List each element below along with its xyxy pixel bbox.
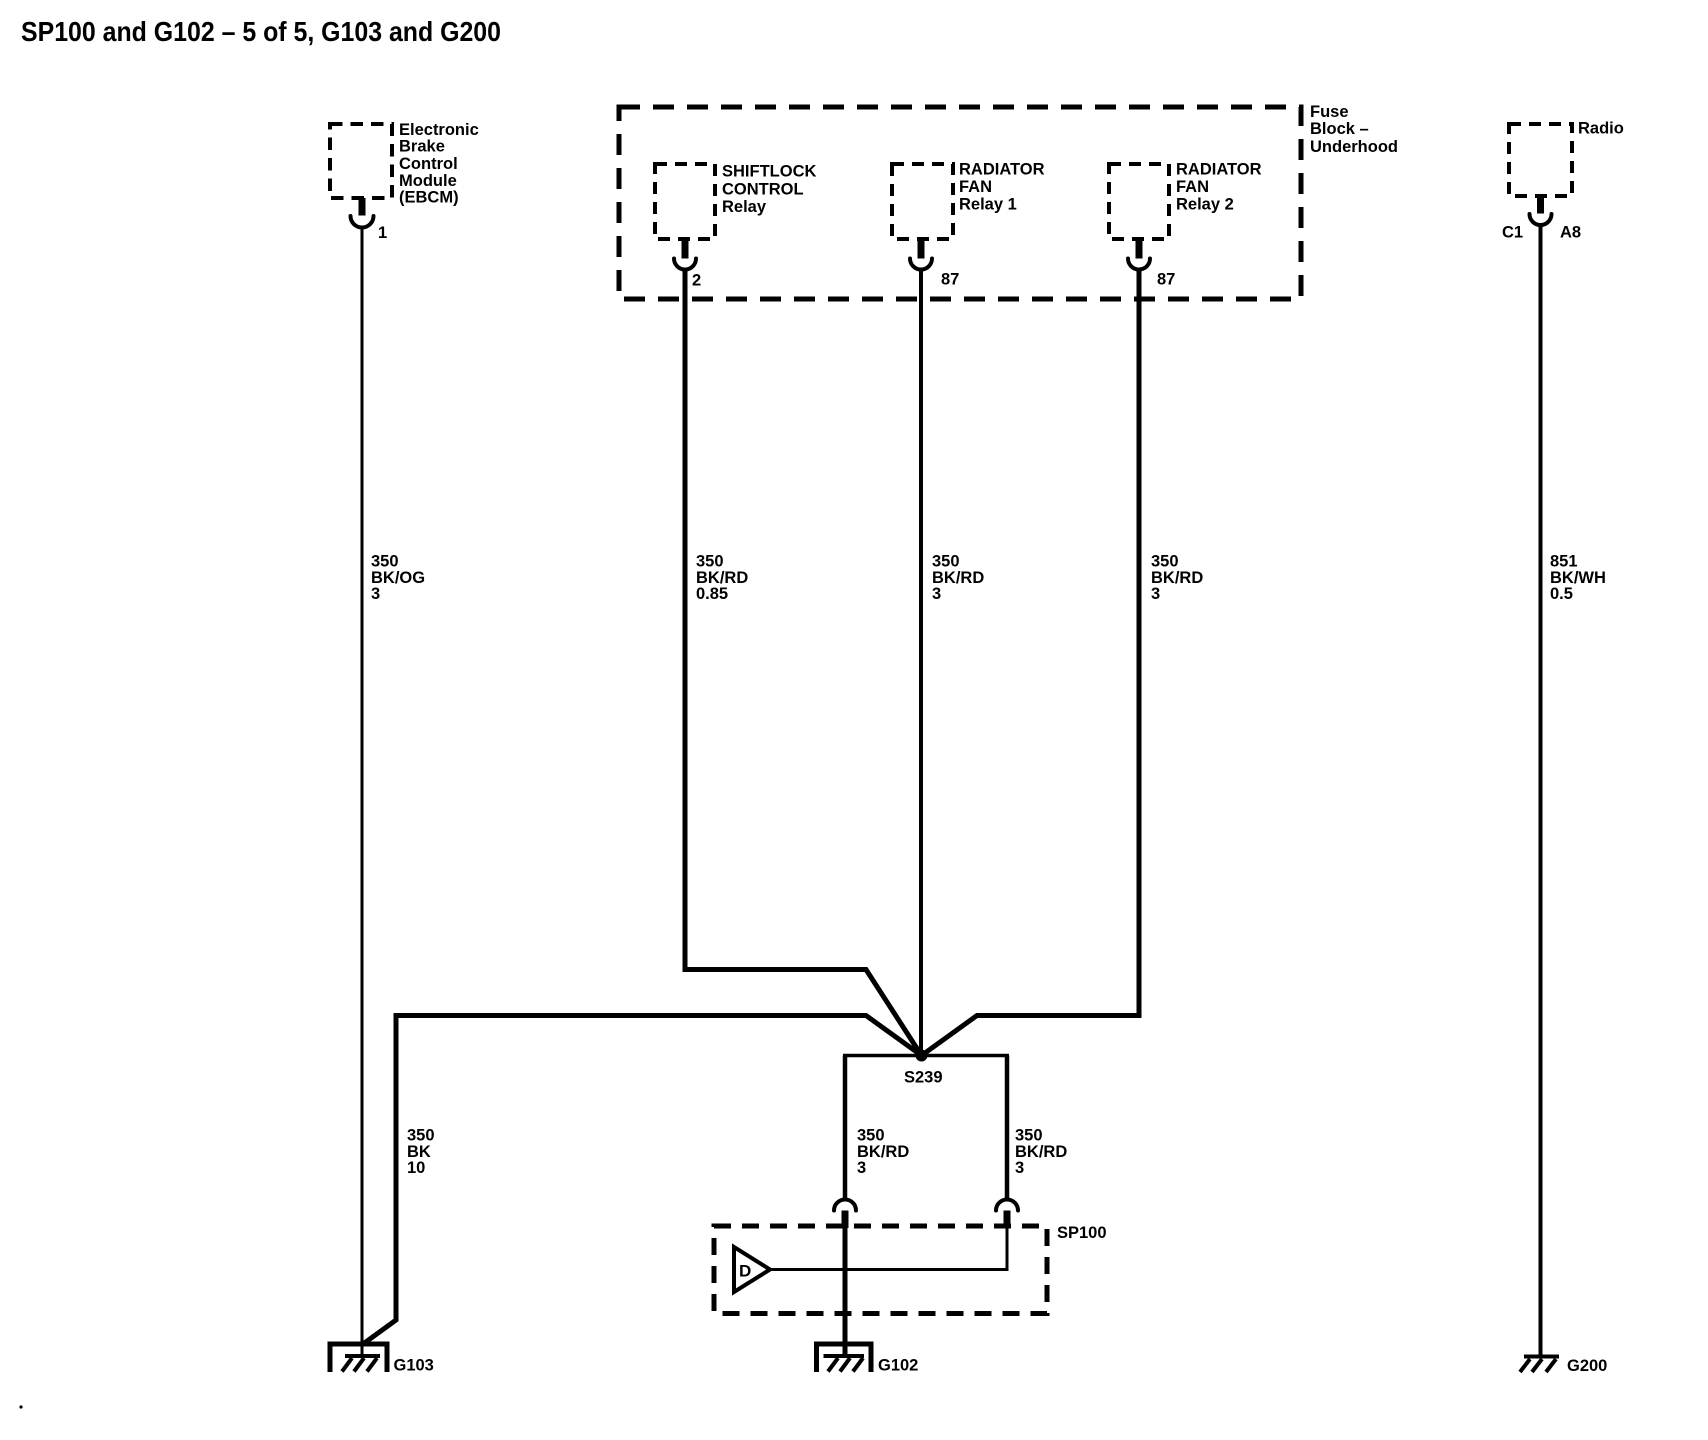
svg-text:G102: G102 [878,1357,918,1375]
svg-text:Underhood: Underhood [1310,138,1398,156]
svg-text:350: 350 [932,552,960,570]
svg-text:87: 87 [1157,270,1175,288]
svg-text:350: 350 [696,552,724,570]
svg-text:10: 10 [407,1159,425,1177]
svg-text:BK/RD: BK/RD [1015,1143,1067,1161]
svg-text:Electronic: Electronic [399,121,479,139]
svg-text:0.5: 0.5 [1550,585,1573,603]
svg-text:Block –: Block – [1310,120,1369,138]
svg-text:Brake: Brake [399,138,445,156]
svg-text:Relay: Relay [722,198,767,216]
svg-text:BK/RD: BK/RD [932,569,984,587]
svg-text:1: 1 [378,224,387,242]
svg-text:FAN: FAN [959,178,992,196]
svg-text:350: 350 [1151,552,1179,570]
svg-text:3: 3 [1151,585,1160,603]
svg-text:Control: Control [399,155,458,173]
svg-text:3: 3 [932,585,941,603]
svg-text:SP100 and G102 – 5 of 5, G103: SP100 and G102 – 5 of 5, G103 and G200 [21,16,501,47]
svg-text:BK: BK [407,1143,431,1161]
svg-text:Radio: Radio [1578,119,1624,137]
svg-text:CONTROL: CONTROL [722,181,804,199]
svg-text:Relay 2: Relay 2 [1176,195,1234,213]
svg-text:3: 3 [857,1159,866,1177]
svg-text:(EBCM): (EBCM) [399,189,459,207]
svg-text:SHIFTLOCK: SHIFTLOCK [722,163,816,181]
svg-text:BK/WH: BK/WH [1550,569,1606,587]
svg-text:C1: C1 [1502,223,1523,241]
svg-text:BK/RD: BK/RD [857,1143,909,1161]
svg-text:Fuse: Fuse [1310,103,1349,121]
svg-text:0.85: 0.85 [696,585,728,603]
svg-text:D: D [739,1262,751,1281]
svg-text:A8: A8 [1560,223,1581,241]
svg-text:RADIATOR: RADIATOR [1176,160,1262,178]
svg-text:350: 350 [1015,1126,1043,1144]
svg-text:S239: S239 [904,1068,943,1086]
svg-text:RADIATOR: RADIATOR [959,160,1045,178]
svg-text:2: 2 [692,272,701,290]
svg-text:BK/RD: BK/RD [1151,569,1203,587]
svg-text:Module: Module [399,172,457,190]
svg-text:BK/OG: BK/OG [371,569,425,587]
svg-text:BK/RD: BK/RD [696,569,748,587]
svg-text:G103: G103 [394,1357,434,1375]
svg-text:3: 3 [1015,1159,1024,1177]
svg-text:350: 350 [407,1126,435,1144]
svg-text:350: 350 [371,552,399,570]
svg-text:SP100: SP100 [1057,1224,1107,1242]
svg-text:G200: G200 [1567,1357,1607,1375]
svg-text:350: 350 [857,1126,885,1144]
svg-text:FAN: FAN [1176,178,1209,196]
svg-text:Relay 1: Relay 1 [959,195,1017,213]
svg-text:851: 851 [1550,552,1578,570]
svg-text:87: 87 [941,270,959,288]
svg-text:3: 3 [371,585,380,603]
